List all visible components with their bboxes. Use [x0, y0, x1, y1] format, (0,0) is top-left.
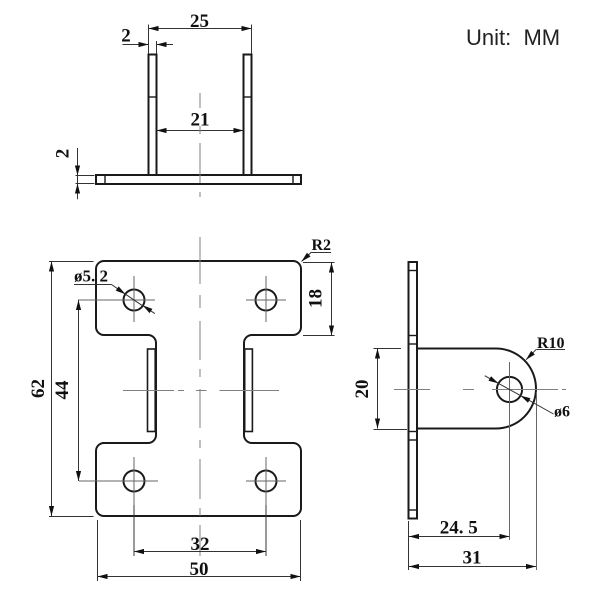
- dim 62 extension bottom: [49, 516, 94, 518]
- horizontal centerline side view: [394, 389, 566, 391]
- dim 62 extension top: [49, 261, 94, 263]
- svg-text:25: 25: [190, 11, 209, 32]
- label dia 5.2 leader lower arrow: [143, 305, 155, 313]
- svg-text:2: 2: [53, 149, 74, 159]
- dim 18 extension top: [303, 262, 335, 264]
- dim 2 (tab width) arrow right: [157, 44, 174, 46]
- side hole dia 6: [497, 377, 522, 402]
- dim 18 line: [331, 263, 333, 336]
- dim 50 extension right: [300, 520, 302, 581]
- dim 32 extension right: [265, 505, 267, 556]
- vertical centerline main view: [199, 237, 201, 556]
- label dia 6 opposite arrow: [485, 376, 499, 384]
- svg-text:62: 62: [28, 379, 49, 398]
- crosshair bottom-left hole: [79, 457, 158, 505]
- svg-text:31: 31: [463, 548, 482, 569]
- svg-text:18: 18: [306, 289, 327, 308]
- dim 62 line: [51, 262, 53, 517]
- dim 2 thickness bottom arrow: [77, 184, 79, 198]
- dim 20 extension top: [374, 348, 402, 350]
- side hole vertical crosshair + extension: [509, 362, 511, 540]
- dim 2 (base thickness) line: [77, 148, 79, 199]
- crosshair top-left hole: [78, 276, 155, 322]
- dim 21 line: [157, 130, 244, 132]
- crosshair bottom-right hole: [246, 457, 286, 505]
- plate tick below tab 1: [409, 431, 418, 433]
- svg-text:Unit: MM: Unit: MM: [466, 25, 560, 50]
- label R2 leader: [302, 252, 312, 262]
- label dia 5.2 underline: [74, 284, 112, 286]
- svg-text:2: 2: [121, 26, 131, 47]
- bend tick left end of base: [104, 175, 106, 184]
- hole top-right: [256, 290, 277, 311]
- svg-text:44: 44: [52, 380, 73, 400]
- plate tick below tab 2: [409, 439, 418, 441]
- dim 18 extension bottom: [303, 335, 335, 337]
- plate tick near top: [409, 270, 418, 272]
- dim 32 line: [134, 551, 266, 553]
- base plate (edge view): [96, 175, 301, 184]
- dim 44 line: [78, 300, 80, 481]
- svg-text:50: 50: [190, 559, 209, 580]
- vertical centerline top view: [199, 93, 201, 197]
- label dia 6 through line: [499, 383, 521, 395]
- bend tick right end of base: [292, 175, 294, 184]
- dim 2 thickness top arrow: [77, 160, 79, 176]
- svg-text:ø5. 2: ø5. 2: [74, 267, 108, 286]
- slot centerline: [123, 390, 279, 392]
- dim 2 thickness extension top: [76, 175, 95, 177]
- dim 20 line: [377, 349, 379, 429]
- svg-text:ø6: ø6: [554, 404, 570, 421]
- dim 25 extension line right: [251, 25, 253, 55]
- label R10 leader: [526, 349, 536, 360]
- plate left edge extension below: [408, 521, 410, 570]
- hole bottom-left: [124, 471, 145, 492]
- side tab outline with R10 end: [417, 349, 536, 429]
- left slot (bent tab edge): [148, 349, 156, 432]
- dim 2 (tab width) arrow left: [123, 44, 149, 46]
- dim 31 extension right: [536, 392, 538, 570]
- dim 31 line: [409, 566, 536, 568]
- svg-text:R10: R10: [537, 335, 565, 352]
- dim 32 extension left: [133, 505, 135, 556]
- hole top-left: [124, 290, 145, 311]
- plate tick near bottom: [409, 509, 418, 511]
- hole bottom-right: [256, 471, 277, 492]
- plate tick above tab 1: [409, 335, 418, 337]
- dim 25 extension line left: [148, 25, 150, 55]
- crosshair top-right hole: [246, 276, 286, 322]
- right tab bend tick: [244, 96, 252, 98]
- plate tick above tab 2: [409, 343, 418, 345]
- dim 50 line: [98, 576, 301, 578]
- svg-text:24. 5: 24. 5: [440, 518, 478, 539]
- svg-text:32: 32: [191, 534, 210, 555]
- dim 50 extension left: [97, 520, 99, 581]
- dim 2 thickness extension bottom: [76, 183, 95, 185]
- right slot (bent tab edge): [245, 349, 253, 432]
- label dia 6 leader: [521, 396, 554, 414]
- plate outline I-shape: [96, 261, 301, 516]
- dim 20 extension bottom: [374, 429, 408, 431]
- label dia 5.2 through line: [125, 294, 142, 306]
- left upright tab: [149, 55, 157, 176]
- dim 24.5 line: [409, 536, 510, 538]
- dim 25 line: [149, 28, 252, 30]
- label R10 underline: [537, 349, 566, 351]
- left tab bend tick: [149, 96, 157, 98]
- vertical plate edge view: [409, 262, 418, 519]
- label R2 underline: [312, 252, 332, 254]
- label dia 5.2 leader upper arrow: [112, 285, 126, 295]
- svg-text:20: 20: [352, 380, 373, 399]
- dim 2 extension line: [156, 41, 158, 54]
- svg-text:R2: R2: [312, 237, 332, 254]
- right upright tab: [244, 55, 252, 176]
